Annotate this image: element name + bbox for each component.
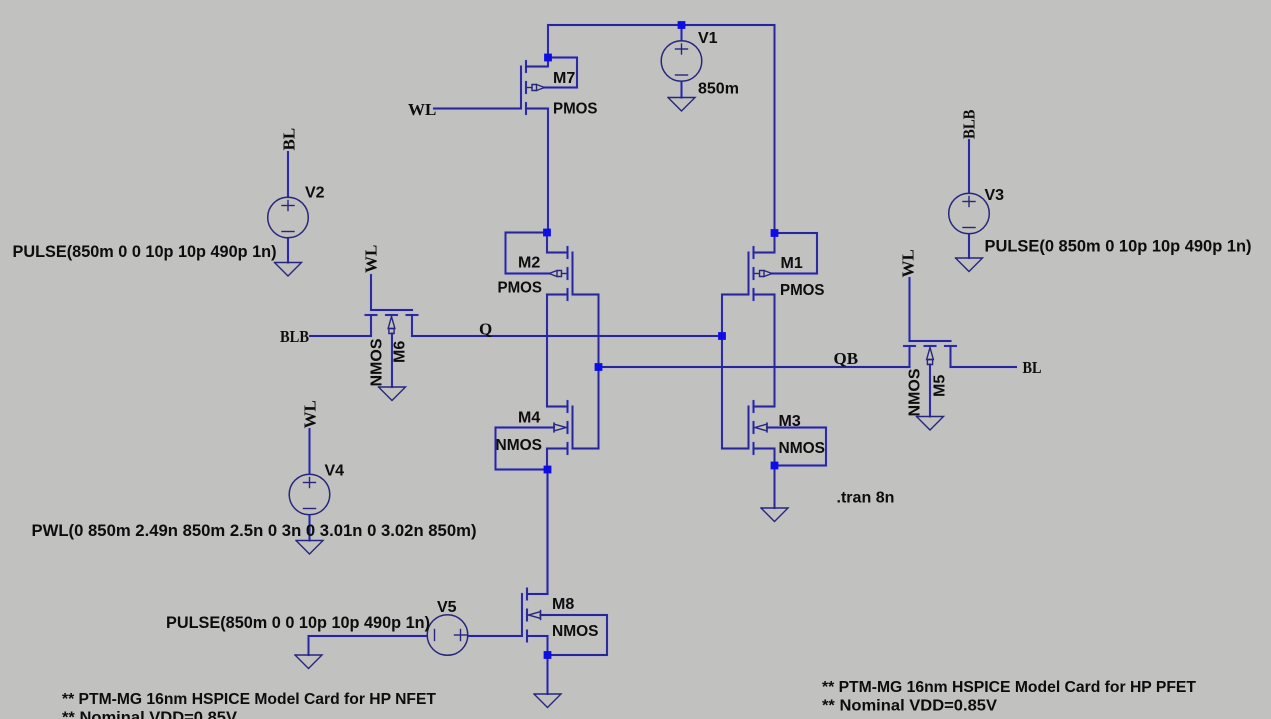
svg-text:BL: BL bbox=[280, 128, 299, 151]
svg-text:V3: V3 bbox=[985, 187, 1005, 204]
svg-text:NMOS: NMOS bbox=[496, 437, 543, 454]
svg-text:V4: V4 bbox=[325, 463, 345, 480]
svg-text:850m: 850m bbox=[698, 81, 739, 98]
svg-text:M5: M5 bbox=[932, 375, 949, 397]
svg-text:NMOS: NMOS bbox=[907, 368, 924, 416]
svg-text:M3: M3 bbox=[779, 413, 801, 430]
svg-text:WL: WL bbox=[301, 400, 320, 428]
svg-text:M8: M8 bbox=[552, 596, 574, 613]
svg-text:** Nominal VDD=0.85V: ** Nominal VDD=0.85V bbox=[62, 710, 237, 719]
svg-text:PMOS: PMOS bbox=[553, 101, 598, 118]
svg-text:M4: M4 bbox=[518, 410, 540, 427]
svg-text:PULSE(850m 0 0 10p 10p 490p 1n: PULSE(850m 0 0 10p 10p 490p 1n) bbox=[13, 242, 277, 261]
svg-text:Q: Q bbox=[479, 320, 492, 339]
svg-text:V5: V5 bbox=[437, 599, 457, 616]
svg-text:PMOS: PMOS bbox=[498, 280, 543, 297]
svg-text:PULSE(850m 0 0 10p 10p 490p 1n: PULSE(850m 0 0 10p 10p 490p 1n) bbox=[166, 613, 430, 632]
svg-text:BLB: BLB bbox=[280, 327, 309, 346]
svg-text:PWL(0 850m 2.49n 850m 2.5n 0 3: PWL(0 850m 2.49n 850m 2.5n 0 3n 0 3.01n … bbox=[32, 521, 477, 540]
svg-text:** Nominal VDD=0.85V: ** Nominal VDD=0.85V bbox=[822, 698, 997, 715]
svg-text:NMOS: NMOS bbox=[369, 338, 386, 386]
svg-text:V1: V1 bbox=[698, 30, 718, 47]
svg-text:WL: WL bbox=[408, 100, 436, 119]
svg-text:NMOS: NMOS bbox=[552, 623, 599, 640]
svg-text:.tran 8n: .tran 8n bbox=[837, 490, 895, 507]
svg-text:WL: WL bbox=[899, 249, 918, 277]
svg-text:V2: V2 bbox=[305, 185, 325, 202]
svg-text:** PTM-MG 16nm HSPICE Model Ca: ** PTM-MG 16nm HSPICE Model Card for HP … bbox=[62, 691, 436, 708]
svg-text:WL: WL bbox=[362, 245, 381, 273]
svg-text:M7: M7 bbox=[553, 70, 575, 87]
svg-text:BL: BL bbox=[1023, 358, 1042, 377]
svg-text:PULSE(0 850m 0 10p 10p 490p 1n: PULSE(0 850m 0 10p 10p 490p 1n) bbox=[985, 237, 1252, 256]
svg-text:M2: M2 bbox=[518, 255, 540, 272]
svg-text:NMOS: NMOS bbox=[779, 440, 826, 457]
svg-text:QB: QB bbox=[834, 349, 859, 368]
svg-text:PMOS: PMOS bbox=[780, 282, 825, 299]
svg-text:M6: M6 bbox=[392, 341, 409, 363]
svg-text:M1: M1 bbox=[781, 255, 803, 272]
svg-text:BLB: BLB bbox=[960, 110, 979, 140]
svg-text:** PTM-MG 16nm HSPICE Model Ca: ** PTM-MG 16nm HSPICE Model Card for HP … bbox=[822, 679, 1196, 696]
